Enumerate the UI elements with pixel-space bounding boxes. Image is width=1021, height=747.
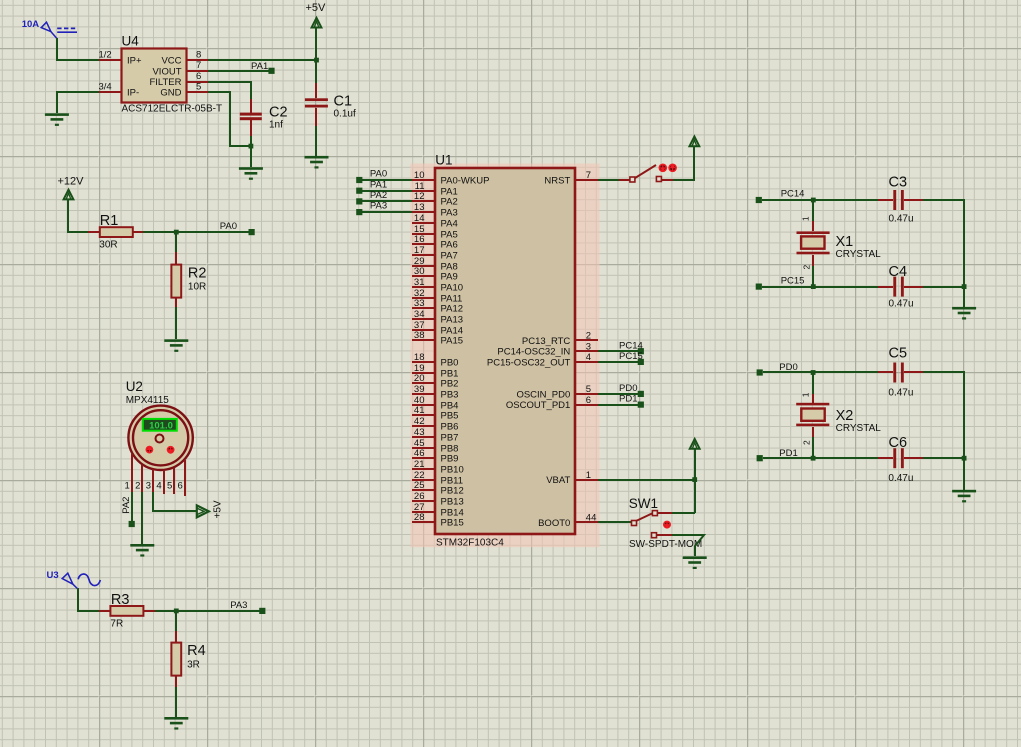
wire U1 to PC15 terminal <box>598 361 641 363</box>
generator 10A probe symbol <box>41 22 77 38</box>
wire X1 branch bottom <box>812 255 814 287</box>
label C3 value 0.47u <box>889 213 914 224</box>
svg-text:PA4: PA4 <box>441 219 458 230</box>
svg-text:VCC: VCC <box>161 56 181 67</box>
X2 pin 1 label (rotated) <box>801 392 811 397</box>
reset switch left contact <box>630 177 635 182</box>
reset switch arm <box>635 165 656 178</box>
U1 pin PA1 (11) <box>412 181 458 197</box>
reset switch actuator up <box>668 164 677 173</box>
svg-text:PC15-OSC32_OUT: PC15-OSC32_OUT <box>487 357 571 368</box>
U2 pin 6 <box>178 460 185 496</box>
svg-text:8: 8 <box>196 50 201 61</box>
svg-text:PB15: PB15 <box>441 518 464 529</box>
svg-text:25: 25 <box>414 480 425 491</box>
label C4 value 0.47u <box>889 299 914 310</box>
wire PD0 to C5 <box>763 371 893 373</box>
U1 pin PC14-OSC32_IN (3) <box>497 341 598 357</box>
U1 pin PB5 (41) <box>412 405 458 421</box>
U1 pin PA12 (33) <box>412 298 463 314</box>
svg-text:STM32F103C4: STM32F103C4 <box>436 538 504 549</box>
IC U1 body <box>435 168 575 534</box>
wire U2 pin3 to +5V arrow <box>153 492 196 511</box>
svg-text:5: 5 <box>586 384 591 395</box>
label net PD1 (U1 side) <box>619 394 637 405</box>
svg-text:PA1: PA1 <box>370 179 387 190</box>
wire rail to SW1 top contact <box>658 512 695 514</box>
svg-text:30R: 30R <box>99 240 117 251</box>
terminal PD1 (crystal) <box>757 455 763 461</box>
svg-text:PA10: PA10 <box>441 283 464 294</box>
junction PD0 / X2 <box>811 370 816 375</box>
capacitor C5 <box>893 363 923 383</box>
U1 pin PB10 (21) <box>412 459 464 475</box>
svg-text:SW-SPDT-MOM: SW-SPDT-MOM <box>629 539 702 550</box>
svg-text:C2: C2 <box>269 105 288 121</box>
U1 pin PA10 (31) <box>412 277 463 293</box>
svg-text:X1: X1 <box>836 234 854 250</box>
wire U3 to R3 <box>78 588 99 611</box>
U1 pin PB1 (19) <box>412 363 458 379</box>
svg-text:PD1: PD1 <box>619 394 637 405</box>
junction C2 / GND net <box>249 144 254 149</box>
svg-text:0.47u: 0.47u <box>889 213 914 224</box>
capacitor C4 <box>893 277 923 297</box>
power +5V arrow <box>312 18 322 28</box>
generator U3 label <box>47 570 59 581</box>
label net PC14 (crystal) <box>781 189 805 200</box>
svg-text:14: 14 <box>414 213 425 224</box>
wire node to R2 <box>175 232 177 252</box>
svg-text:FILTER: FILTER <box>149 77 181 88</box>
svg-text:C6: C6 <box>889 435 908 451</box>
U2 pin 3 <box>146 469 153 492</box>
svg-text:R1: R1 <box>100 213 119 229</box>
U1 pin OSCOUT_PD1 (6) <box>506 395 598 411</box>
wire PC15 to C4 <box>762 286 893 288</box>
label X2 value CRYSTAL <box>836 423 882 434</box>
label net PA0 (U1 side) <box>370 169 387 180</box>
U1 pin PB8 (45) <box>412 438 458 454</box>
svg-text:6: 6 <box>178 481 183 492</box>
sensor U2 vent hole <box>156 435 164 443</box>
wire R1 to PA0 node <box>143 231 176 233</box>
U2 pin 1 <box>125 454 132 492</box>
svg-text:2: 2 <box>135 481 140 492</box>
wire R4 to ground <box>175 687 177 717</box>
ground (U2 pin2) <box>130 544 154 557</box>
svg-text:3: 3 <box>146 481 151 492</box>
svg-text:PA12: PA12 <box>441 304 464 315</box>
reset switch right contact <box>656 177 661 182</box>
wire U4 FILTER to C2 <box>208 82 251 99</box>
wire PC14 to C3 <box>762 199 893 201</box>
svg-text:3R: 3R <box>187 659 200 670</box>
U1 pin PB4 (40) <box>412 395 458 411</box>
U4 pin IP+ (1/2) <box>99 50 142 67</box>
U1 pin PA9 (30) <box>412 266 458 282</box>
svg-text:IP+: IP+ <box>127 56 142 67</box>
svg-text:IP-: IP- <box>127 88 139 99</box>
label R2 value 10R <box>188 281 206 292</box>
label C6 refdes <box>889 435 908 451</box>
label C1 refdes <box>334 94 353 110</box>
resistor R3 <box>99 606 155 616</box>
svg-text:PA2: PA2 <box>441 197 458 208</box>
wire C2 bottom to junction <box>250 136 252 146</box>
svg-text:U3: U3 <box>47 570 59 581</box>
SW1 bottom contact <box>652 533 657 538</box>
svg-text:C4: C4 <box>889 264 908 280</box>
svg-text:PA6: PA6 <box>441 240 458 251</box>
reset switch actuator down <box>659 164 668 173</box>
IC U4 refdes U4 <box>122 34 140 49</box>
svg-text:PC15: PC15 <box>619 351 643 362</box>
switch SW1 refdes <box>629 496 658 511</box>
svg-text:43: 43 <box>414 427 425 438</box>
U1 pin PA4 (14) <box>412 213 458 229</box>
svg-text:PA0-WKUP: PA0-WKUP <box>441 176 490 187</box>
label net PA1 (U1 side) <box>370 179 387 190</box>
U1 pin PB6 (42) <box>412 416 458 432</box>
wire U1 NRST to switch <box>598 179 630 181</box>
svg-text:13: 13 <box>414 202 425 213</box>
svg-text:PA9: PA9 <box>441 272 458 283</box>
wire U4 IP- to ground <box>57 92 99 113</box>
junction VBAT rail <box>692 477 697 482</box>
wire U1 to PD0 terminal <box>598 393 641 395</box>
svg-text:C5: C5 <box>889 346 908 362</box>
svg-text:PA2: PA2 <box>121 497 132 514</box>
svg-text:PB6: PB6 <box>441 422 459 433</box>
svg-text:39: 39 <box>414 384 425 395</box>
svg-text:PB2: PB2 <box>441 379 459 390</box>
terminal PA1 <box>268 68 274 74</box>
SW1 arm <box>636 513 653 521</box>
svg-text:101.0: 101.0 <box>149 421 173 432</box>
svg-text:ACS712ELCTR-05B-T: ACS712ELCTR-05B-T <box>122 104 223 115</box>
junction PD1 / X2 <box>811 456 816 461</box>
svg-text:PA3: PA3 <box>441 208 458 219</box>
svg-text:31: 31 <box>414 277 425 288</box>
svg-text:+5V: +5V <box>306 2 327 14</box>
ground (C1) <box>305 156 329 169</box>
terminal PA0 (U1 side) <box>356 177 362 183</box>
label net PD0 (crystal) <box>779 362 797 373</box>
U1 pin PC15-OSC32_OUT (4) <box>487 352 598 368</box>
ground (C2) <box>239 167 263 180</box>
svg-text:10: 10 <box>414 170 425 181</box>
junction R3 / R4 / PA3 <box>174 609 179 614</box>
svg-text:18: 18 <box>414 352 425 363</box>
svg-text:33: 33 <box>414 298 425 309</box>
wire C4 to right rail (X1) <box>923 286 964 288</box>
svg-text:VIOUT: VIOUT <box>152 66 181 77</box>
terminal PC14 (U1 side) <box>638 348 644 354</box>
label C5 value 0.47u <box>888 388 913 399</box>
capacitor C1 <box>305 83 328 126</box>
svg-text:R4: R4 <box>187 643 206 659</box>
svg-text:4: 4 <box>586 352 591 363</box>
svg-text:PA0: PA0 <box>220 221 237 232</box>
U1 pin VBAT (1) <box>546 470 598 486</box>
terminal PA1 (U1 side) <box>356 188 362 194</box>
svg-text:7: 7 <box>586 170 591 181</box>
U1 pin PB0 (18) <box>412 352 458 368</box>
wire PA3 terminal to U1 <box>362 211 412 213</box>
svg-text:5: 5 <box>167 481 172 492</box>
U2 pin 5 <box>167 468 174 494</box>
capacitor C3 <box>893 190 923 210</box>
svg-text:1: 1 <box>586 470 591 481</box>
wire X2 branch bottom <box>812 427 814 458</box>
svg-text:1/2: 1/2 <box>99 50 112 61</box>
svg-text:PC14-OSC32_IN: PC14-OSC32_IN <box>497 347 570 358</box>
U1 pin OSCIN_PD0 (5) <box>516 384 598 400</box>
label C6 value 0.47u <box>888 473 913 484</box>
SW1 value SW-SPDT-MOM <box>629 539 702 550</box>
U1 pin PA5 (15) <box>412 224 458 240</box>
svg-text:NRST: NRST <box>544 176 570 187</box>
U1 pin PB9 (46) <box>412 448 458 464</box>
U1 pin PA3 (13) <box>412 202 458 218</box>
generator 10A label <box>22 19 40 30</box>
SW1 top contact <box>652 511 657 516</box>
svg-text:30: 30 <box>414 266 425 277</box>
wire PA0 terminal to U1 <box>362 179 412 181</box>
svg-text:PC15: PC15 <box>781 275 805 286</box>
wire R2 to ground <box>175 307 177 339</box>
junction right rail (X1) <box>962 284 967 289</box>
IC U4 body <box>122 49 187 103</box>
label X1 refdes <box>836 234 854 250</box>
label net PD0 (U1 side) <box>619 383 637 394</box>
svg-text:6: 6 <box>196 71 201 82</box>
svg-text:C3: C3 <box>889 175 908 191</box>
SW1 actuator <box>663 521 671 529</box>
wire 10A probe to U4 IP+ <box>57 38 99 60</box>
svg-text:OSCIN_PD0: OSCIN_PD0 <box>516 389 570 400</box>
U4 pin VCC (8) <box>161 50 208 67</box>
svg-text:U4: U4 <box>122 34 140 49</box>
svg-text:R2: R2 <box>188 266 207 282</box>
svg-text:PB0: PB0 <box>441 358 459 369</box>
svg-text:U1: U1 <box>435 152 452 167</box>
svg-text:1: 1 <box>801 216 811 221</box>
wire U1 to PC14 terminal <box>598 350 641 352</box>
resistor R2 <box>171 252 181 307</box>
svg-text:PA0: PA0 <box>370 169 387 180</box>
label net PD1 (crystal) <box>779 448 797 459</box>
wire rail to ground (X1) <box>963 287 965 307</box>
U1 pin PB12 (25) <box>412 480 464 496</box>
U1 pin PA8 (29) <box>412 256 458 272</box>
U1 pin PB13 (26) <box>412 491 464 507</box>
terminal PA3 (U1 side) <box>356 209 362 215</box>
svg-text:PA2: PA2 <box>370 190 387 201</box>
wire U1 VBAT to rail <box>598 479 695 481</box>
label C3 refdes <box>889 175 908 191</box>
sensor U2 screw left <box>146 446 154 454</box>
wire X2 branch top <box>812 372 814 403</box>
sensor U2 screw right <box>167 446 175 454</box>
svg-text:28: 28 <box>414 512 425 523</box>
svg-text:10A: 10A <box>22 19 40 30</box>
SW1 left contact <box>632 521 637 526</box>
U1 pin PA14 (37) <box>412 320 463 336</box>
wire C6 to right rail (X2) <box>923 457 964 459</box>
svg-text:PB7: PB7 <box>441 433 459 444</box>
svg-text:U2: U2 <box>126 379 143 394</box>
svg-text:2: 2 <box>802 265 812 270</box>
wire +5V arrow to C1 <box>315 28 317 83</box>
svg-text:BOOT0: BOOT0 <box>538 518 570 529</box>
U1 pin PB14 (27) <box>412 502 464 518</box>
U1 pin PB15 (28) <box>412 512 464 528</box>
svg-text:VBAT: VBAT <box>546 475 570 486</box>
wire +12V to R1 <box>68 199 88 232</box>
label +5V (rotated, U2) <box>213 500 224 518</box>
IC U4 value ACS712ELCTR-05B-T <box>122 104 223 115</box>
svg-text:26: 26 <box>414 491 425 502</box>
svg-text:+12V: +12V <box>58 175 85 187</box>
power +12V arrow <box>64 190 74 200</box>
svg-text:C1: C1 <box>334 94 353 110</box>
wire C1 to ground <box>315 126 317 156</box>
svg-text:MPX4115: MPX4115 <box>126 395 170 406</box>
label R4 value 3R <box>187 659 200 670</box>
wire R3 to PA3 node <box>155 610 176 612</box>
wire switch to +5V arrow (NRST) <box>662 146 694 180</box>
U4 pin GND (5) <box>160 82 208 99</box>
power arrow (VBAT) <box>690 439 700 449</box>
U1 pin PA7 (17) <box>412 245 458 261</box>
U1 pin PA6 (16) <box>412 234 458 250</box>
label net PA3 (U1 side) <box>370 201 387 212</box>
X2 pin 2 label (rotated) <box>802 440 812 445</box>
svg-text:SW1: SW1 <box>629 496 658 511</box>
IC U1 refdes U1 <box>435 152 452 167</box>
generator U3 probe symbol <box>62 573 78 589</box>
svg-text:PA3: PA3 <box>230 600 247 611</box>
junction PC14 / X1 <box>811 198 816 203</box>
ground (U4 input) <box>45 113 69 126</box>
svg-text:3: 3 <box>586 341 591 352</box>
label net PC15 (crystal) <box>781 275 805 286</box>
svg-text:20: 20 <box>414 373 425 384</box>
svg-text:17: 17 <box>414 245 425 256</box>
svg-text:PD0: PD0 <box>619 383 637 394</box>
svg-text:PB13: PB13 <box>441 497 464 508</box>
svg-text:38: 38 <box>414 330 425 341</box>
sensor U2 value MPX4115 <box>126 395 170 406</box>
svg-text:PC13_RTC: PC13_RTC <box>522 336 571 347</box>
terminal PC14 (crystal) <box>756 197 762 203</box>
svg-text:0.47u: 0.47u <box>888 473 913 484</box>
svg-text:6: 6 <box>586 395 591 406</box>
junction right rail (X2) <box>962 456 967 461</box>
label X2 refdes <box>836 408 854 424</box>
terminal PA2 (U1 side) <box>356 198 362 204</box>
svg-text:OSCOUT_PD1: OSCOUT_PD1 <box>506 400 570 411</box>
svg-text:0.47u: 0.47u <box>888 388 913 399</box>
svg-text:1: 1 <box>801 392 811 397</box>
svg-text:R3: R3 <box>111 592 130 608</box>
U1 pin PA0-WKUP (10) <box>412 170 489 186</box>
wire U2 pin1 to PA2 terminal <box>131 492 133 521</box>
U1 pin PB3 (39) <box>412 384 458 400</box>
svg-text:2: 2 <box>802 440 812 445</box>
ground (R2) <box>164 339 188 352</box>
resistor R4 <box>171 631 181 687</box>
sensor U2 display <box>143 419 177 432</box>
svg-text:0.47u: 0.47u <box>889 299 914 310</box>
power arrow (NRST pull-up) <box>690 137 700 147</box>
U1 pin PA11 (32) <box>412 288 462 304</box>
svg-text:10R: 10R <box>188 281 206 292</box>
svg-text:PA7: PA7 <box>441 251 458 262</box>
crystal X1 <box>797 231 830 254</box>
sensor U2 refdes <box>126 379 143 394</box>
wire junction to ground (C2) <box>250 146 252 167</box>
svg-text:34: 34 <box>414 309 425 320</box>
svg-text:+5V: +5V <box>213 500 224 518</box>
svg-text:CRYSTAL: CRYSTAL <box>836 249 882 260</box>
U4 pin FILTER (6) <box>149 71 208 88</box>
power +5V arrow right (U2) <box>197 505 209 517</box>
terminal PA3 <box>259 608 265 614</box>
svg-text:X2: X2 <box>836 408 854 424</box>
svg-text:7R: 7R <box>110 618 123 629</box>
wire PA1 terminal to U1 <box>362 190 412 192</box>
svg-text:PB9: PB9 <box>441 454 459 465</box>
terminal PD0 (crystal) <box>757 369 763 375</box>
ground (X2) <box>952 490 976 503</box>
terminal PA2 <box>129 521 135 527</box>
U2 pin 2 <box>135 465 142 492</box>
ground (X1) <box>952 307 976 320</box>
U1 pin PB2 (20) <box>412 373 458 389</box>
wire PD1 to C6 <box>763 457 893 459</box>
U1 pin PB7 (43) <box>412 427 458 443</box>
wire U4 GND to C2 bottom <box>208 92 251 146</box>
label net PA1 <box>251 61 268 72</box>
ground (R4) <box>164 717 188 730</box>
generator U3 sine symbol <box>78 574 100 586</box>
capacitor C2 <box>240 99 262 136</box>
resistor R1 <box>88 227 143 237</box>
wire X1 branch top <box>812 200 814 231</box>
svg-text:46: 46 <box>414 448 425 459</box>
svg-text:1nf: 1nf <box>269 120 283 131</box>
IC U1 selection highlight <box>410 164 599 548</box>
svg-text:0.1uf: 0.1uf <box>334 109 356 120</box>
svg-text:PA13: PA13 <box>441 315 464 326</box>
label R2 refdes <box>188 266 207 282</box>
wire node to PA3 terminal <box>176 610 262 612</box>
label R3 refdes <box>111 592 130 608</box>
wire SW1 bottom to ground <box>657 535 704 556</box>
wire PA2 terminal to U1 <box>362 200 412 202</box>
U2 pin 4 <box>156 470 164 494</box>
terminal PC15 (U1 side) <box>638 359 644 365</box>
junction PC15 / X1 <box>811 284 816 289</box>
label C2 value 1nf <box>269 120 283 131</box>
capacitor C6 <box>893 448 923 468</box>
U1 pin PA13 (34) <box>412 309 463 325</box>
wire U4 VIOUT to PA1 terminal <box>208 70 272 72</box>
label net PA2 (U1 side) <box>370 190 387 201</box>
